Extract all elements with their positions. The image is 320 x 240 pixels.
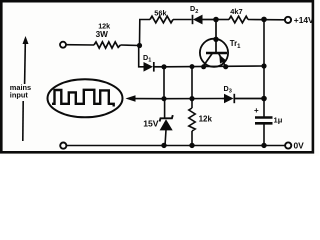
node: emitter junction bbox=[223, 64, 228, 69]
node: 12k column top junction bbox=[190, 64, 195, 69]
svg-text:15V: 15V bbox=[143, 119, 159, 129]
wire: right vertical rail bbox=[263, 19, 265, 116]
wire: terminal to R1 bbox=[66, 44, 94, 46]
svg-text:3W: 3W bbox=[96, 30, 109, 39]
terminal +14V bbox=[285, 17, 291, 23]
node: top rail / Tr1 lead bbox=[213, 17, 219, 23]
resistor 12k 3W bbox=[94, 42, 121, 48]
wire: mid lower rail y=98.6 bbox=[164, 98, 223, 100]
node E junction dot bbox=[261, 96, 267, 102]
node: cap bottom bbox=[261, 143, 266, 148]
diode D3 (pointing right) bbox=[223, 94, 265, 103]
wire: node A up to top rail corner bbox=[140, 20, 151, 46]
wire: node A down to D1 bbox=[139, 46, 144, 67]
node A junction dot bbox=[137, 43, 142, 48]
svg-text:56k: 56k bbox=[154, 8, 167, 17]
wire: bottom rail 0V bbox=[66, 145, 285, 147]
svg-text:0V: 0V bbox=[294, 141, 305, 151]
node: zener bottom bbox=[161, 143, 166, 148]
svg-text:+14V: +14V bbox=[294, 15, 314, 25]
transistor Tr1 bbox=[200, 20, 228, 68]
wire: 12k column upper bbox=[191, 66, 193, 98]
diode D2 (cathode left) bbox=[193, 15, 217, 25]
terminal 0V bbox=[285, 142, 291, 148]
node D junction dot bbox=[189, 96, 194, 101]
resistor 12k vertical bbox=[189, 99, 195, 146]
node B junction dot bbox=[161, 64, 166, 69]
node C junction dot bbox=[161, 96, 166, 101]
wire: R1 to node A bbox=[121, 44, 141, 47]
terminal: mains input top bbox=[60, 42, 66, 48]
node: collector leg junction bbox=[201, 64, 206, 69]
resistor 4k7 bbox=[229, 16, 248, 23]
node: rail / right vertical bbox=[261, 63, 266, 68]
capacitor 1u bbox=[255, 118, 273, 146]
svg-text:input: input bbox=[10, 90, 29, 99]
wire: 4k7 to +14V terminal bbox=[248, 19, 285, 21]
svg-text:4k7: 4k7 bbox=[230, 7, 242, 16]
terminal: bottom left bbox=[60, 143, 66, 149]
wire: zener column upper bbox=[163, 67, 165, 99]
mains input label bbox=[10, 83, 31, 99]
node: top rail / right vertical bbox=[261, 17, 267, 23]
arrow to waveform bubble bbox=[126, 95, 165, 102]
wire: node to 4k7 bbox=[216, 19, 229, 21]
wire: emitter rail y=67 bbox=[164, 65, 264, 68]
squarewave trace bbox=[52, 90, 114, 107]
resistor 56k bbox=[150, 16, 173, 23]
svg-text:12k: 12k bbox=[199, 114, 213, 123]
node: 12k bottom bbox=[189, 143, 194, 148]
zener diode 15V bbox=[160, 99, 173, 146]
wire: 56k to D2 bbox=[173, 19, 192, 21]
mains input annotation arrow bbox=[23, 36, 29, 141]
diode D1 (pointing right) bbox=[144, 62, 165, 72]
squarewave symbol ellipse bbox=[48, 79, 123, 117]
svg-text:+: + bbox=[254, 106, 259, 115]
svg-text:1μ: 1μ bbox=[274, 116, 283, 125]
